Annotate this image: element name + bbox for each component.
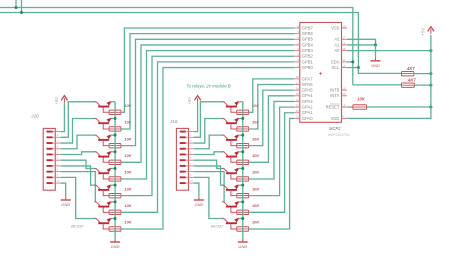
pin 8 of J10 [47, 169, 61, 173]
wire SCL pin stub [347, 67, 358, 69]
resistor R23 10K base of Q13 [237, 177, 249, 181]
resistor R18 10K base of Q8 [109, 227, 121, 231]
svg-text:10K: 10K [252, 120, 260, 125]
junction A0 on +5V rail [429, 49, 432, 52]
wire down to GND symbol [375, 45, 377, 58]
svg-text:GPA4: GPA4 [302, 93, 313, 98]
svg-text:10K: 10K [252, 186, 260, 191]
pin 3 of J16 [180, 140, 194, 144]
wire Q6 emitter to rail [112, 184, 115, 186]
junction emitter Q16 on rail [241, 217, 244, 220]
resistor R22 10K base of Q12 [237, 160, 249, 164]
wire R20 to U1 pin [249, 85, 295, 129]
pin A2 (pin 17) of U1 [334, 36, 347, 42]
pin 10 of J10 [47, 180, 61, 184]
pin 6 of J10 [47, 157, 61, 161]
resistor R13 10K base of Q3 [109, 143, 121, 147]
wire SDA bus: off-page left, along top, down to SDA pin and pull-up [0, 8, 353, 85]
resistor R19 10K base of Q9 [237, 110, 249, 114]
junction emitter Q14 on rail [241, 184, 244, 187]
svg-text:10: 10 [342, 24, 346, 28]
wire Q2 emitter to rail [112, 117, 115, 119]
wire SDA pin stub [347, 61, 353, 63]
svg-text:GPB2: GPB2 [302, 54, 314, 59]
wire J16 pin4 to Q11 collector [194, 135, 223, 149]
ground GND (J16 pin10) [194, 197, 204, 207]
junction emitter Q10 on rail [241, 117, 244, 120]
wire VDD to +5V rail [347, 107, 431, 118]
junction emitter Q12 on rail [241, 150, 244, 153]
wire J10 pin4 to Q3 collector [61, 135, 96, 149]
wire J16 pin7 to Q14 collector [194, 166, 223, 185]
pin A0 (pin 15) of U1 [334, 47, 347, 53]
svg-text:A2: A2 [334, 37, 340, 42]
svg-text:13: 13 [342, 58, 346, 62]
svg-text:10K: 10K [124, 136, 132, 141]
wire R22 to U1 pin [249, 96, 295, 163]
wire Q3 emitter to rail [112, 134, 115, 136]
pin RESET (pin 18) of U1 [326, 103, 347, 109]
wire J16 pin9 to Q16 collector [194, 177, 223, 218]
junction emitter Q7 on rail [114, 200, 117, 203]
junction emitter Q15 on rail [241, 200, 244, 203]
power +5V supply arrow (J10) [54, 96, 68, 105]
resistor R17 10K base of Q7 [109, 210, 121, 214]
svg-text:15: 15 [342, 47, 346, 51]
transistor Q16 BC337 [222, 218, 240, 229]
pin 4 of J16 [180, 146, 194, 150]
wire Q10 emitter to rail [240, 117, 243, 119]
svg-text:28: 28 [296, 75, 300, 79]
pin 5 of J10 [47, 151, 61, 155]
pin 7 of J16 [180, 163, 194, 167]
svg-text:25: 25 [296, 92, 300, 96]
wire Q15 emitter to rail [240, 201, 243, 203]
pin GPA4 (pin 25) of U1 [294, 92, 313, 98]
svg-text:A1: A1 [334, 42, 340, 47]
pin GPA7 (pin 28) of U1 [294, 75, 313, 81]
transistor Q1 BC337 [94, 101, 112, 112]
pin GPA0 (pin 21) of U1 [294, 115, 313, 121]
resistor R26 10K base of Q16 [237, 227, 249, 231]
pin GPB2 (pin 3) of U1 [294, 53, 313, 59]
junction SDA [351, 60, 354, 63]
resistor R5 10K RESET pull-up [353, 105, 367, 109]
wire J16 pin10 to GND [194, 183, 199, 197]
wire J16 pin1 to +5V [194, 103, 198, 132]
svg-text:BC337: BC337 [211, 224, 224, 229]
svg-text:GND: GND [238, 244, 247, 249]
svg-text:GPA2: GPA2 [302, 105, 313, 110]
ground GND (A1/A2 address pins) [371, 58, 381, 68]
junction emitter Q5 on rail [114, 167, 117, 170]
svg-text:10K: 10K [124, 203, 132, 208]
transistor Q5 BC337 [94, 168, 112, 179]
svg-text:10K: 10K [124, 170, 132, 175]
svg-text:10K: 10K [357, 96, 366, 101]
svg-text:VSS: VSS [331, 25, 340, 30]
wire Q4 emitter to rail [112, 151, 115, 153]
pin GPB5 (pin 6) of U1 [294, 36, 313, 42]
transistor Q3 BC337 [94, 134, 112, 145]
svg-text:INTA: INTA [330, 93, 339, 98]
svg-text:16: 16 [342, 41, 346, 45]
svg-text:4K7: 4K7 [406, 66, 415, 71]
pin 5 of J16 [180, 151, 194, 155]
wire R21 to U1 pin [249, 90, 295, 145]
wire R13 to U1 pin [121, 39, 294, 145]
wire Q9 emitter to rail [240, 101, 243, 103]
pin 1 of J10 [47, 129, 61, 133]
ground GND (J10 pin10) [61, 197, 71, 207]
svg-text:10K: 10K [252, 203, 260, 208]
wire Q5 emitter to rail [112, 167, 115, 169]
pin GPB3 (pin 4) of U1 [294, 47, 313, 53]
wire R16 to U1 pin [121, 56, 294, 195]
svg-text:GND: GND [371, 63, 380, 68]
transistor Q13 BC337 [222, 168, 240, 179]
svg-text:A0: A0 [334, 48, 340, 53]
pin 10 of J16 [180, 180, 194, 184]
pin A1 (pin 16) of U1 [334, 41, 347, 47]
wire A1 to GND [347, 44, 376, 46]
junction emitter Q4 on rail [114, 150, 117, 153]
pin GPA6 (pin 27) of U1 [294, 81, 313, 87]
pin GPA3 (pin 24) of U1 [294, 98, 313, 104]
wire J16 pin2 to Q9 collector [194, 102, 223, 138]
wire J10 pin9 to Q8 collector [61, 177, 96, 218]
transistor Q4 BC337 [94, 151, 112, 162]
svg-text:SDA: SDA [331, 59, 340, 64]
transistor Q7 BC337 [94, 201, 112, 212]
svg-text:INTB: INTB [330, 88, 340, 93]
svg-text:10K: 10K [124, 186, 132, 191]
svg-text:GPA1: GPA1 [302, 110, 313, 115]
svg-text:20: 20 [342, 92, 346, 96]
wire Q11 emitter to rail [240, 134, 243, 136]
svg-text:GPA7: GPA7 [302, 76, 313, 81]
svg-text:10K: 10K [124, 153, 132, 158]
svg-text:27: 27 [296, 81, 300, 85]
svg-text:GPB0: GPB0 [302, 65, 314, 70]
resistor R15 10K base of Q5 [109, 177, 121, 181]
resistor R24 10K base of Q14 [237, 193, 249, 197]
svg-text:GND: GND [111, 244, 120, 249]
wire J10 pin10 to GND [61, 183, 66, 197]
svg-text:GPB5: GPB5 [302, 37, 314, 42]
transistor Q11 BC337 [222, 134, 240, 145]
svg-text:10K: 10K [252, 136, 260, 141]
resistor R11 10K base of Q1 [109, 110, 121, 114]
svg-text:GPB6: GPB6 [302, 31, 314, 36]
transistor Q8 BC337 [94, 218, 112, 229]
svg-text:17: 17 [342, 36, 346, 40]
svg-text:GPB4: GPB4 [302, 42, 314, 47]
svg-text:J16: J16 [169, 119, 178, 124]
svg-text:GPA5: GPA5 [302, 88, 313, 93]
junction emitter Q8 on rail [114, 217, 117, 220]
wire R12 to U1 pin [121, 34, 294, 129]
wire Q8 emitter to rail [112, 217, 115, 219]
pin SDA (pin 13) of U1 [331, 58, 347, 64]
transistor Q14 BC337 [222, 184, 240, 195]
pin 2 of J10 [47, 134, 61, 138]
svg-text:10K: 10K [124, 103, 132, 108]
wire R4 to +5V rail [414, 84, 431, 86]
junction SCL [357, 66, 360, 69]
pin 4 of J10 [47, 146, 61, 150]
svg-text:19: 19 [342, 86, 346, 90]
transistor Q12 BC337 [222, 151, 240, 162]
pin VDD (pin 9) of U1 [331, 115, 347, 121]
wire A2 to GND [347, 39, 376, 45]
pin 2 of J16 [180, 134, 194, 138]
pin 1 of J16 [180, 129, 194, 133]
wire R17 to U1 pin [121, 62, 294, 212]
junction SDA stub [15, 6, 18, 9]
wire J10 pin5 to Q4 collector [61, 152, 96, 155]
wire Q16 emitter to rail [240, 217, 243, 219]
wire R3 to +5V rail [414, 73, 431, 75]
svg-text:10K: 10K [252, 153, 260, 158]
svg-text:GPA6: GPA6 [302, 82, 313, 87]
pin VSS (pin 10) of U1 [331, 24, 347, 30]
junction emitter Q2 on rail [114, 117, 117, 120]
wire SCL off-page stub up [21, 0, 23, 13]
wire J16 pin3 to Q10 collector [194, 118, 223, 143]
resistor R12 10K base of Q2 [109, 127, 121, 131]
wire emitter rail bank 2 [242, 102, 244, 239]
pin GPB0 (pin 1) of U1 [294, 64, 313, 70]
wire Q14 emitter to rail [240, 184, 243, 186]
junction R3 on +5V rail [429, 72, 432, 75]
pin INTA (pin 20) of U1 [330, 92, 347, 98]
resistor R20 10K base of Q10 [237, 127, 249, 131]
transistor Q9 BC337 [222, 101, 240, 112]
wire R26 to U1 pin [249, 118, 295, 229]
junction A1/A2 [374, 43, 377, 46]
svg-text:+5V: +5V [421, 27, 426, 36]
wire J10 pin3 to Q2 collector [61, 118, 96, 143]
svg-text:22: 22 [296, 109, 300, 113]
pin GPB6 (pin 7) of U1 [294, 30, 313, 36]
wire R14 to U1 pin [121, 45, 294, 162]
svg-text:+5V: +5V [54, 96, 59, 105]
transistor Q10 BC337 [222, 118, 240, 129]
wire R24 to U1 pin [249, 107, 295, 196]
wire Q7 emitter to rail [112, 201, 115, 203]
wire J10 pin1 to +5V [61, 103, 65, 132]
pin 3 of J10 [47, 140, 61, 144]
wire J16 pin8 to Q15 collector [194, 172, 224, 202]
wire J10 pin2 to Q1 collector [61, 102, 96, 138]
svg-text:SCL: SCL [331, 65, 340, 70]
wire R19 to U1 pin [249, 79, 295, 112]
pin GPA1 (pin 22) of U1 [294, 109, 313, 115]
svg-text:RESET: RESET [326, 105, 340, 110]
wire R11 to U1 pin [121, 28, 294, 112]
svg-text:26: 26 [296, 86, 300, 90]
op-amp/IC U1 MCP23017 I/O expander [300, 23, 350, 138]
pin 7 of J10 [47, 163, 61, 167]
wire R25 to U1 pin [249, 113, 295, 213]
pin GPB1 (pin 2) of U1 [294, 58, 313, 64]
wire Q1 emitter to rail [112, 101, 115, 103]
wire J10 pin6 to Q5 collector [61, 160, 96, 168]
svg-text:GPA0: GPA0 [302, 116, 313, 121]
wire R18 to U1 pin [121, 68, 294, 229]
transistor Q6 BC337 [94, 184, 112, 195]
transistor Q2 BC337 [94, 118, 112, 129]
pin GPB7 (pin 8) of U1 [294, 24, 313, 30]
wire R15 to U1 pin [121, 51, 294, 179]
svg-text:21: 21 [296, 115, 300, 119]
transistor Q15 BC337 [222, 201, 240, 212]
pin 9 of J16 [180, 174, 194, 178]
svg-text:10K: 10K [252, 220, 260, 225]
junction emitter Q11 on rail [241, 134, 244, 137]
svg-text:10K: 10K [252, 170, 260, 175]
ground GND (emitter rail bank 1) [110, 239, 120, 249]
wire RESET pin to R5 [347, 106, 353, 108]
svg-text:GPB3: GPB3 [302, 48, 314, 53]
resistor R14 10K base of Q4 [109, 160, 121, 164]
junction emitter Q3 on rail [114, 134, 117, 137]
svg-text:GPA3: GPA3 [302, 99, 313, 104]
wire SDA to pull-up R [353, 84, 402, 86]
svg-text:GPB1: GPB1 [302, 59, 314, 64]
svg-text:4K7: 4K7 [407, 77, 416, 82]
svg-text:GND: GND [61, 202, 70, 207]
junction emitter Q13 on rail [241, 167, 244, 170]
svg-text:+5V: +5V [187, 96, 192, 105]
wire J16 pin5 to Q12 collector [194, 152, 223, 155]
pin GPA2 (pin 23) of U1 [294, 103, 313, 109]
svg-text:MCP2: MCP2 [329, 126, 341, 131]
resistor R25 10K base of Q15 [237, 210, 249, 214]
connector J16 10-pin header [169, 119, 189, 190]
pin GPA5 (pin 26) of U1 [294, 86, 313, 92]
pin 6 of J16 [180, 157, 194, 161]
connector J10 10-pin header [30, 113, 55, 190]
svg-text:10K: 10K [124, 120, 132, 125]
junction R5 on +5V rail [429, 106, 432, 109]
svg-text:VDD: VDD [331, 116, 340, 121]
svg-text:18: 18 [342, 103, 346, 107]
pin 8 of J16 [180, 169, 194, 173]
junction R4 on +5V rail [429, 84, 432, 87]
wire emitter rail bank 1 [114, 102, 116, 239]
junction SCL stub [20, 11, 23, 14]
pin SCL (pin 12) of U1 [331, 64, 347, 70]
wire R23 to U1 pin [249, 101, 295, 179]
wire J16 pin6 to Q13 collector [194, 160, 223, 168]
svg-text:12: 12 [342, 64, 346, 68]
power +5V supply arrow (right) [421, 27, 435, 36]
svg-text:MCP23017SO: MCP23017SO [328, 133, 350, 137]
svg-text:BC337: BC337 [71, 224, 84, 229]
svg-text:GPB7: GPB7 [302, 25, 314, 30]
resistor R16 10K base of Q6 [109, 193, 121, 197]
pin INTB (pin 19) of U1 [330, 86, 347, 92]
svg-text:23: 23 [296, 103, 300, 107]
resistor R4 4K7 SDA pull-up [402, 83, 415, 87]
svg-text:GND: GND [194, 202, 203, 207]
pin 9 of J10 [47, 174, 61, 178]
wire +5V rail vertical [430, 35, 432, 107]
pin GPB4 (pin 5) of U1 [294, 41, 313, 47]
wire SCL to pull-up R [358, 68, 401, 74]
ground GND (emitter rail bank 2) [238, 239, 248, 249]
resistor R3 4K7 SCL pull-up [402, 71, 414, 75]
svg-text:10K: 10K [124, 220, 132, 225]
wire Q12 emitter to rail [240, 151, 243, 153]
wire A0 to +5V rail [347, 50, 431, 52]
wire R5 to +5V rail [367, 106, 431, 108]
svg-text:To relays, 2x module B: To relays, 2x module B [186, 84, 231, 89]
resistor R21 10K base of Q11 [237, 143, 249, 147]
wire J10 pin7 to Q6 collector [61, 166, 96, 185]
power +5V supply arrow (J16) [187, 96, 201, 105]
svg-text:J10: J10 [30, 113, 39, 118]
junction emitter Q6 on rail [114, 184, 117, 187]
svg-text:24: 24 [296, 98, 300, 102]
wire SDA off-page stub up [15, 0, 17, 8]
wire J10 pin8 to Q7 collector [61, 172, 96, 202]
wire Q13 emitter to rail [240, 167, 243, 169]
wire SCL bus: off-page left, along top, down to SCL pin and pull-up [0, 13, 358, 74]
